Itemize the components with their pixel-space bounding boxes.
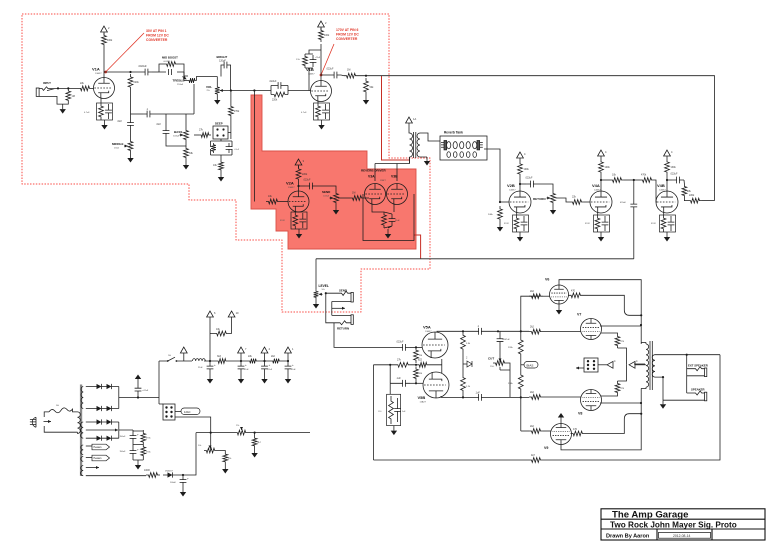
- wire V6 grid: [529, 295, 540, 297]
- diode D4: [94, 408, 104, 410]
- svg-text:1M: 1M: [347, 69, 350, 72]
- svg-text:.022uF: .022uF: [525, 177, 533, 180]
- node PI tail top: [389, 364, 391, 366]
- wire bias to network: [177, 433, 196, 475]
- wire V1A cathode: [100, 99, 102, 104]
- resistor R33 27k: [395, 362, 411, 367]
- resistor R26 10k: [610, 178, 624, 183]
- svg-text:22uF: 22uF: [198, 367, 203, 369]
- resistor R5 220k: [128, 74, 133, 90]
- svg-text:25kA: 25kA: [114, 147, 119, 150]
- wire cathode rc bottom: [384, 226, 392, 228]
- capacitor V4B cathode 4.7uF: [668, 216, 675, 231]
- resistor R20 1M send: [350, 196, 364, 201]
- capacitor V2A cathode 4.7uF: [299, 213, 306, 228]
- V2B cathode RC box: [513, 215, 529, 232]
- red highlighted wire (V1B node to reverb transformer): [382, 76, 411, 160]
- wire V2B cathode: [516, 213, 518, 215]
- wire bass bottom: [166, 138, 186, 146]
- resistor R56 2k2: [271, 359, 281, 364]
- ground V2A cathode: [298, 229, 300, 234]
- svg-text:MID BOOST: MID BOOST: [162, 56, 178, 60]
- svg-text:LEVEL: LEVEL: [319, 284, 329, 288]
- svg-text:820R: 820R: [651, 223, 656, 225]
- svg-text:.1uF: .1uF: [396, 377, 401, 380]
- ground above 47uF: [137, 379, 139, 383]
- wire to V5A grid: [410, 346, 422, 348]
- wire 10k stubs: [210, 333, 232, 335]
- node 50k tap: [365, 75, 367, 77]
- wire to V4A grid: [584, 201, 590, 203]
- red highlighted wire (reverb box to send line): [414, 235, 421, 258]
- wire cap down to box: [633, 210, 635, 259]
- resistor R15 1M: [344, 73, 358, 78]
- svg-text:4.7uF: 4.7uF: [301, 112, 307, 114]
- slope network loop (cap + resistor parallel): [271, 86, 288, 95]
- resistor V2B cathode 820R: [514, 215, 519, 232]
- svg-text:.47uF: .47uF: [315, 57, 321, 59]
- svg-text:.022: .022: [156, 123, 161, 126]
- V1A cathode RC box: [97, 103, 113, 120]
- resistor R22 240k: [498, 206, 503, 222]
- capacitor C27 22uF: [207, 361, 214, 374]
- wire bridge output to filter: [119, 397, 159, 399]
- wire ext speaker drop: [686, 355, 688, 393]
- svg-text:V9: V9: [544, 446, 548, 450]
- svg-text:2k2: 2k2: [530, 391, 535, 394]
- capacitor C29 22uF: [261, 361, 268, 374]
- wire V8 screen: [601, 395, 618, 396]
- wire plate to resistor: [103, 47, 105, 72]
- capacitor C18 .1uF: [398, 380, 410, 387]
- jack loop normal link: [326, 293, 334, 323]
- power node 1A feed: [406, 117, 413, 123]
- svg-text:100uF: 100uF: [170, 482, 177, 484]
- wire to return loop: [702, 200, 715, 202]
- wire V2A cathode: [295, 211, 297, 212]
- svg-text:.0022uF: .0022uF: [138, 65, 147, 68]
- resistor R18 10k: [266, 199, 280, 204]
- capacitor C9 .47uF: [310, 55, 317, 67]
- svg-text:2k2: 2k2: [530, 290, 535, 293]
- tube V3B triode: [387, 184, 408, 205]
- power transformer T1 core: [80, 385, 82, 477]
- potentiometer BAL 25k: [235, 430, 248, 435]
- node V1A output: [129, 71, 131, 73]
- wire V4B cathode: [663, 213, 665, 215]
- wire V1A plate: [103, 72, 105, 78]
- potentiometer LEVEL 50k: [314, 290, 319, 299]
- svg-text:470: 470: [571, 290, 576, 293]
- wire distribution row: [159, 360, 288, 362]
- capacitor C15 .022uF out: [672, 177, 684, 184]
- wire to coupling node: [624, 179, 640, 181]
- wire to V2B grid: [500, 201, 509, 203]
- wire OT center tap: [634, 363, 645, 365]
- resistor R30 220k: [688, 198, 702, 203]
- svg-text:BASS: BASS: [174, 130, 182, 134]
- node ext speaker tap: [686, 354, 688, 356]
- mid boost network loop: [159, 64, 188, 76]
- wire 220k to tone bus: [130, 90, 132, 114]
- treble wiper arrow: [183, 77, 187, 80]
- node dist 1: [209, 360, 211, 362]
- node V5A plate: [462, 330, 464, 332]
- capacitor C25 150uF: [130, 446, 137, 458]
- wire input to grid resistor: [58, 87, 78, 89]
- node lower primary: [640, 402, 642, 404]
- capacitor C17 .022uF PI input: [398, 344, 410, 351]
- wire tank output down: [484, 149, 500, 202]
- svg-text:1M: 1M: [72, 95, 75, 98]
- wire V1B plate out: [321, 74, 330, 76]
- resistor R27 470k: [640, 178, 654, 183]
- svg-text:.0068uF: .0068uF: [163, 61, 171, 63]
- svg-text:FROM 12V DC: FROM 12V DC: [336, 32, 359, 36]
- ground V2B cathode: [519, 232, 521, 237]
- wire cut cap to pot: [499, 349, 501, 363]
- 12V winding center arrow: [86, 467, 99, 469]
- resistor R34 1M lower: [414, 367, 419, 382]
- ground 4k7: [254, 448, 256, 453]
- svg-text:12AX7: 12AX7: [509, 189, 516, 192]
- resistor R16 50k: [364, 78, 369, 95]
- wire V7 screen to B+ node: [618, 348, 627, 365]
- wire filter stack links: [133, 430, 143, 460]
- resistor R40 220k lower: [518, 371, 523, 393]
- wire down to level pot: [315, 259, 317, 290]
- net oval 12AC: [175, 411, 181, 413]
- node dist 4: [287, 360, 289, 362]
- wire V8 plate: [600, 402, 641, 404]
- resistor R9 27k to deep: [199, 133, 211, 138]
- ground dist 2: [240, 374, 242, 379]
- ground OT secondary: [662, 400, 664, 404]
- svg-text:820R: 820R: [504, 223, 509, 225]
- wire to 4k7: [254, 433, 256, 436]
- svg-text:SEND: SEND: [322, 190, 331, 194]
- svg-text:The Amp Garage: The Amp Garage: [612, 509, 688, 520]
- capacitor C26 100uF: [180, 475, 187, 487]
- potentiometer TREBLE 250kA: [188, 78, 197, 83]
- svg-text:EXT SPEAKER: EXT SPEAKER: [688, 363, 708, 367]
- node 4k7: [254, 432, 256, 434]
- plug arrow: [44, 421, 52, 423]
- ground middle: [130, 153, 132, 158]
- power node B+4 V4B: [664, 150, 671, 156]
- svg-text:+: +: [187, 477, 189, 481]
- potentiometer BASS 500kA: [184, 128, 189, 142]
- wire V4B out: [667, 179, 672, 181]
- V2A cathode RC box: [291, 212, 307, 229]
- wire connector riser: [159, 361, 163, 404]
- resistor R7 220k slope: [271, 92, 288, 97]
- tube V4A triode: [590, 191, 612, 213]
- resistor R47 2k2 V9 grid: [529, 429, 543, 434]
- ground filter stack: [137, 460, 139, 465]
- svg-text:1N4007: 1N4007: [165, 471, 173, 473]
- capacitor C12 .022uF send: [305, 183, 317, 190]
- wire OT center tap feed: [635, 364, 646, 366]
- resistor R25 100k plate V4A: [599, 159, 604, 175]
- svg-text:12AX7: 12AX7: [95, 72, 102, 75]
- svg-text:CONVERTER: CONVERTER: [146, 38, 168, 42]
- wire to bias oval: [521, 364, 524, 366]
- diode D1 plate supply: [463, 361, 472, 367]
- resistor R23 100k plate V2B: [518, 161, 523, 177]
- wire V8 grid: [543, 396, 581, 398]
- svg-text:12AX7: 12AX7: [288, 186, 295, 189]
- bias pot wiper: [209, 446, 211, 449]
- ground reverb cathode: [387, 229, 389, 234]
- svg-text:1M: 1M: [352, 192, 355, 195]
- resistor R14 100k plate V1B: [319, 28, 324, 42]
- power tap triangle A: [607, 361, 613, 368]
- red dashed boundary outline: [22, 14, 430, 312]
- V1B cathode RC box: [314, 103, 330, 120]
- resistor R13 1.5k: [303, 54, 308, 68]
- wire upper rail down: [520, 331, 522, 431]
- resistor R11 10k: [219, 160, 224, 172]
- capacitor C8 .022uF middle: [127, 118, 134, 130]
- DEEP switch box: [213, 126, 228, 139]
- wire grid V1B: [309, 90, 311, 92]
- resistor R55 22k: [248, 359, 258, 364]
- capacitor C4 .022uF slope: [271, 82, 288, 89]
- svg-text:+: +: [137, 433, 139, 437]
- svg-text:TREBLE: TREBLE: [173, 79, 185, 83]
- wire plate load column: [462, 353, 464, 397]
- capacitor C1 4.7uF cathode: [105, 104, 112, 119]
- wire cut pot loop: [500, 363, 510, 397]
- svg-text:Drawn By Aaron: Drawn By Aaron: [606, 533, 650, 539]
- power node B+3 for V2A: [295, 159, 302, 165]
- wire V5A plate row: [437, 331, 474, 332]
- bal pot wiper: [241, 427, 243, 430]
- svg-text:Heaters: Heaters: [94, 446, 103, 449]
- svg-text:100k: 100k: [524, 168, 530, 171]
- resistor V2A cathode 820R: [293, 212, 298, 229]
- svg-text:220k: 220k: [272, 99, 278, 102]
- wire V9 plate to OT bottom: [561, 389, 641, 450]
- reverb driver enclosure box: [363, 194, 414, 241]
- wire NFB vertical: [373, 365, 375, 460]
- capacitor C20 .1uF upper: [474, 328, 486, 335]
- reverb tank coils: [441, 141, 483, 158]
- svg-text:100k: 100k: [605, 166, 611, 169]
- wire 270k to deep switch: [230, 118, 232, 126]
- svg-text:820R: 820R: [280, 220, 285, 222]
- wire bias winding to 100R: [86, 475, 146, 477]
- svg-text:V4B: V4B: [657, 183, 665, 188]
- wire secondary top to NFB rail: [658, 354, 720, 356]
- capacitor C24 150uF: [130, 431, 137, 443]
- potentiometer RETURN 100k: [551, 191, 556, 205]
- diode D10 1N4007: [163, 474, 177, 476]
- wire tone bus left: [131, 113, 144, 115]
- svg-text:250kA: 250kA: [177, 83, 184, 86]
- reverb tank box: [440, 136, 487, 160]
- wire bias adj drop: [210, 433, 212, 451]
- tube V8 power pentode: [581, 390, 602, 411]
- resistor R42 470 V6 screen: [569, 293, 584, 298]
- output transformer T3: [641, 341, 658, 390]
- ground V1B cathode: [321, 120, 323, 125]
- V4B cathode RC box: [660, 215, 676, 232]
- svg-text:DEEP: DEEP: [215, 122, 223, 126]
- svg-text:Heaters: Heaters: [94, 457, 103, 460]
- svg-text:100kA: 100kA: [323, 195, 330, 198]
- ground bass: [185, 160, 187, 165]
- svg-text:+: +: [214, 363, 216, 367]
- svg-text:V6: V6: [545, 278, 549, 282]
- node B+ raw: [137, 396, 139, 398]
- svg-text:1A: 1A: [413, 117, 416, 121]
- wire bass to 27k: [194, 134, 199, 136]
- tube V9 power pentode: [551, 424, 572, 445]
- wire to V2A grid: [280, 201, 288, 203]
- svg-text:270k: 270k: [234, 110, 240, 113]
- jack RETURN: [332, 315, 354, 325]
- svg-text:+: +: [269, 363, 271, 367]
- wire input load to ground: [62, 103, 68, 104]
- wire V1B plate riser: [320, 44, 322, 81]
- resistor R1 22k grid stopper: [78, 86, 92, 91]
- node lower rail: [520, 396, 522, 398]
- resistor R28 130k plate V4B: [665, 159, 670, 175]
- wire V4A plate: [600, 175, 602, 191]
- wire to V1A grid: [92, 87, 94, 89]
- resistor R54 3k3: [216, 359, 228, 364]
- power transformer bias secondary winding: [81, 422, 84, 438]
- svg-text:V7: V7: [577, 313, 581, 317]
- ground at input load: [62, 104, 64, 109]
- svg-text:V4A: V4A: [592, 183, 600, 188]
- capacitor C16 470uF: [630, 201, 637, 210]
- svg-text:2k2: 2k2: [530, 425, 535, 428]
- svg-text:.022uF: .022uF: [396, 341, 404, 344]
- tube V7 power pentode: [581, 319, 602, 340]
- ground dist 4: [287, 374, 289, 379]
- capacitor C7 .022uF bass: [163, 126, 170, 138]
- ground below VOL: [216, 96, 218, 100]
- svg-text:2k2: 2k2: [530, 326, 535, 329]
- wire cap to 22k: [683, 180, 685, 184]
- wire center tap arrow: [96, 429, 118, 431]
- wire interstage down: [633, 180, 635, 201]
- ground deep chain: [220, 172, 222, 177]
- svg-text:INPUT: INPUT: [43, 81, 51, 85]
- node V2A branch: [253, 89, 255, 91]
- wire bias bus: [196, 432, 310, 434]
- node V6 screen tap: [640, 314, 642, 316]
- annotation callout: 170V AT PIN 6: [321, 44, 334, 75]
- wire tone output down to V2A: [253, 91, 255, 202]
- wire lower coupling to grids: [486, 396, 529, 398]
- DC-DC converter coil: [193, 359, 206, 361]
- ground V9 cathode: [560, 418, 562, 424]
- ground level pot: [315, 299, 317, 304]
- wire 1M to grid: [415, 381, 417, 383]
- svg-text:REVERB DRIVER: REVERB DRIVER: [361, 169, 387, 173]
- wire V4A out: [601, 179, 610, 181]
- svg-text:130k: 130k: [671, 166, 677, 169]
- wire cap to send pot: [317, 186, 336, 191]
- AC plug P1: [30, 417, 36, 427]
- svg-text:.1uF: .1uF: [475, 392, 480, 395]
- power node B+4 V4A: [598, 150, 605, 156]
- svg-text:220k: 220k: [134, 81, 140, 84]
- svg-text:V5A: V5A: [423, 325, 431, 330]
- potentiometer CUT 25k: [493, 361, 507, 366]
- resistor R4 100k plate: [102, 33, 107, 47]
- wire V2A plate: [298, 182, 300, 191]
- ground V4A cathode: [600, 232, 602, 237]
- ground 240k: [499, 222, 501, 227]
- power triangle 10: [228, 311, 235, 317]
- resistor R53 10k link: [214, 331, 229, 336]
- wire cathode rc top: [384, 212, 392, 214]
- node V5B grid: [415, 382, 417, 384]
- wire return bus (lower box top edge): [316, 258, 634, 260]
- svg-text:822: 822: [418, 359, 423, 362]
- resistor R48 470 V9 screen: [571, 431, 586, 436]
- svg-text:RETURN: RETURN: [337, 327, 349, 331]
- capacitor V2B cathode 4.7uF: [521, 216, 528, 231]
- wire V3B plate up: [396, 164, 398, 182]
- wire to V5B grid: [410, 382, 423, 384]
- resistor V4A cathode 820R: [595, 215, 600, 232]
- node input tip: [57, 87, 59, 89]
- svg-text:+: +: [245, 363, 247, 367]
- net label BIAS oval: [524, 362, 538, 369]
- svg-text:12AX7: 12AX7: [420, 401, 427, 404]
- resistor R10 1M deep: [211, 143, 216, 153]
- svg-text:120pF: 120pF: [219, 60, 226, 63]
- tube V5A triode: [422, 332, 448, 358]
- wire NFB to PI: [374, 459, 530, 461]
- power transformer heater winding A: [81, 445, 83, 455]
- ground V4B cathode: [666, 232, 668, 237]
- node bias adj: [210, 432, 212, 434]
- svg-text:BIAS: BIAS: [527, 364, 534, 368]
- wire riser to triangle 6: [209, 318, 211, 361]
- wire V1A plate node: [104, 71, 141, 73]
- svg-text:+: +: [292, 363, 294, 367]
- capacitor C13 22uF reverb: [389, 214, 396, 226]
- svg-text:22uF: 22uF: [244, 369, 249, 371]
- diode D8: [94, 437, 104, 439]
- wire V9 screen to plate column: [585, 414, 641, 434]
- svg-text:VOL: VOL: [206, 85, 212, 89]
- capacitor C10 .022uF: [330, 72, 341, 79]
- node upper rail: [520, 330, 522, 332]
- power transformer HT secondary winding: [81, 387, 83, 409]
- svg-text:4.7uF: 4.7uF: [84, 112, 90, 114]
- wire return wiper out: [556, 198, 571, 202]
- resistor R19 220k plate V2A: [296, 166, 301, 182]
- wire PI bias row: [374, 359, 442, 373]
- svg-text:RETURN: RETURN: [533, 197, 546, 201]
- wire V4B plate: [666, 175, 668, 191]
- diode D3: [104, 386, 114, 388]
- wire long top feed to phase return loop: [358, 76, 715, 201]
- power transformer 12V winding: [81, 466, 84, 476]
- ground send pot: [335, 205, 337, 210]
- resistor R36 150R tail: [389, 396, 394, 424]
- resistor R57 22k: [223, 452, 228, 464]
- tube V2A triode: [288, 191, 309, 212]
